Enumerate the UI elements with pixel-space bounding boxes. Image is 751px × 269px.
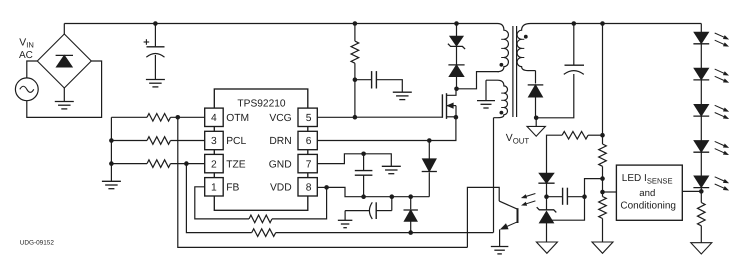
wire R-div2 to return symbol	[602, 219, 604, 243]
svg-text:AC: AC	[19, 50, 33, 61]
ground C-p	[338, 219, 353, 221]
light arrows LED2	[715, 69, 724, 73]
transformer T1 secondary winding	[517, 24, 530, 71]
pin 4 box (OTM)	[205, 108, 224, 126]
block LED I-SENSE and Conditioning	[616, 165, 682, 220]
wire VCG junction to C-VCG	[355, 79, 372, 81]
wire R-OTM to pin 4	[171, 116, 205, 118]
diode D-block	[449, 65, 464, 77]
light arrows LED5	[715, 177, 724, 181]
node T1 secondary phase dot	[524, 35, 528, 39]
wire secondary to D-out	[529, 70, 536, 72]
wire bus to R-PCL	[111, 140, 147, 142]
wire D-z to return symbol	[546, 223, 548, 242]
ground pin 7	[382, 165, 401, 167]
wire aux top to ground	[485, 80, 487, 100]
capacitor C-fb	[562, 188, 564, 205]
diode U2 opto LED	[539, 173, 554, 183]
wire D-out to VOUT node	[535, 97, 537, 118]
ground aux winding	[477, 100, 495, 102]
node divider top junction	[600, 133, 605, 138]
svg-text:TZE: TZE	[226, 159, 246, 170]
wire R-comp left lead to opto LED	[547, 135, 563, 173]
transistor U2 opto NPN	[517, 208, 519, 223]
LED D-led5	[694, 176, 708, 187]
svg-text:UDG-09152: UDG-09152	[20, 240, 55, 247]
node Q1 source junction	[454, 115, 459, 120]
wire D-block to drain node	[456, 77, 458, 89]
wire LED link	[700, 116, 702, 141]
light arrows LED1	[715, 33, 724, 37]
svg-text:4: 4	[211, 113, 217, 124]
capacitor C-VCG	[371, 71, 373, 88]
wire pin 7 GND raised run	[317, 154, 391, 166]
wire VOUT node to C-out	[536, 74, 574, 118]
ground bridge	[63, 88, 65, 101]
ground input cap	[146, 79, 165, 81]
wire top rail primary side	[64, 23, 497, 25]
svg-text:OTM: OTM	[226, 113, 249, 124]
pin 6 box (DRN)	[298, 131, 317, 149]
wire pin 8 VDD to junction	[317, 186, 326, 188]
wire C-VCG to ground	[376, 80, 402, 92]
ground resistor bus	[102, 180, 121, 182]
svg-text:VCG: VCG	[269, 113, 291, 124]
svg-text:5: 5	[306, 113, 312, 124]
svg-text:GND: GND	[269, 159, 292, 170]
node DRN-diode junction	[427, 138, 432, 143]
wire R-comp right lead	[588, 134, 602, 136]
wire top rail secondary side	[531, 23, 702, 25]
svg-text:VDD: VDD	[270, 183, 292, 194]
wire LED link	[700, 152, 702, 176]
node bus-PCL junction	[109, 138, 114, 143]
transformer T1 primary winding	[498, 24, 509, 72]
wire R-PCL to pin 3	[171, 140, 205, 142]
node GND-C7 junction	[361, 152, 366, 157]
svg-text:DRN: DRN	[269, 136, 291, 147]
node T1 primary phase dot	[500, 63, 504, 67]
wire LED link	[700, 44, 702, 69]
node rail-Cout junction	[572, 21, 577, 26]
wire rail down to divider	[602, 24, 604, 145]
svg-text:PCL: PCL	[226, 136, 246, 147]
wire opto junction to C-fb	[547, 196, 563, 198]
LED D-led2	[694, 68, 708, 79]
wire sense node to LED box	[682, 190, 701, 192]
svg-text:3: 3	[211, 136, 217, 147]
resistor R-OTM	[147, 114, 171, 122]
light arrows LED3	[715, 105, 724, 109]
node VDD junction	[324, 185, 329, 190]
pin 7 box (GND)	[298, 154, 317, 172]
ground C-VCG	[393, 91, 412, 93]
node divider sense junction	[600, 190, 605, 195]
wire R-TZE to pin 2	[171, 163, 205, 165]
wire R-div1 to mid junction	[602, 166, 604, 196]
transistor Q1 channel bar	[446, 93, 448, 119]
wire VCG junction to MOSFET gate	[355, 116, 443, 118]
capacitor C-7 (GND to VDD net)	[363, 154, 365, 171]
AC source V1	[15, 78, 38, 101]
pin 8 box (VDD)	[298, 178, 317, 196]
svg-text:FB: FB	[226, 183, 239, 194]
diode D-1 (DRN to VDD net)	[428, 141, 430, 159]
node VOUT junction	[534, 116, 539, 121]
ground opto emitter	[491, 246, 509, 248]
node LED sense junction	[699, 189, 704, 194]
LED D-led3	[694, 105, 708, 116]
transistor Q1 drain lead	[447, 89, 457, 96]
wire opto emitter to ground	[499, 229, 501, 246]
svg-text:8: 8	[306, 183, 312, 194]
node rail-clamp junction	[454, 21, 459, 26]
wire rail to LED string	[700, 24, 702, 33]
transistor Q1 source lead	[447, 116, 457, 118]
wire FB loop	[195, 187, 249, 219]
diode D-2 (aux return to VDD net)	[410, 197, 412, 210]
node rail-cap junction	[153, 21, 158, 26]
wire bus to R-TZE	[111, 163, 147, 165]
wire C-out to rail	[573, 24, 575, 66]
bridge internal diode	[56, 55, 72, 67]
resistor R-sense	[698, 203, 706, 226]
pin 2 box (TZE)	[205, 154, 224, 172]
wire opto LED to junction	[546, 183, 548, 210]
wire C-fb to divider mid	[567, 196, 584, 198]
pin 3 box (PCL)	[205, 131, 224, 149]
pin 1 box (FB)	[205, 178, 224, 196]
svg-text:1: 1	[211, 183, 217, 194]
node net-C7 junction	[361, 194, 366, 199]
resistor R-TZE-aux	[252, 229, 276, 237]
LED D-led4	[694, 141, 708, 152]
node TZE junction	[184, 161, 189, 166]
capacitor C-p polarized	[391, 197, 393, 211]
pin 5 box (VCG)	[298, 108, 317, 126]
node net-Cp junction	[390, 194, 395, 199]
LED D-led1	[694, 32, 708, 43]
wire R-FB to VDD junction	[272, 187, 327, 219]
node D-2 anode junction	[408, 230, 413, 235]
svg-text:Conditioning: Conditioning	[620, 201, 676, 212]
zener D-clamp TVS	[456, 24, 458, 37]
resistor R-TZE	[147, 160, 171, 168]
wire OTM junction down to bottom bus	[178, 117, 468, 247]
node bus-TZE junction	[109, 161, 114, 166]
node OTM junction	[176, 115, 181, 120]
svg-text:2: 2	[211, 159, 217, 170]
wire LED5 to sense node	[700, 188, 702, 203]
wire pin 5 VCG to junction	[317, 116, 355, 118]
wire R-VCG to VCG node	[354, 63, 356, 117]
transistor Q1 body lead with arrow	[447, 105, 457, 107]
capacitor C-in electrolytic	[144, 41, 150, 43]
svg-text:7: 7	[306, 159, 312, 170]
wire resistor bus	[110, 117, 112, 181]
ground LED return (net triangle)	[691, 243, 712, 254]
diode D-out	[529, 85, 543, 97]
node net-D2 junction	[408, 194, 413, 199]
bridge rectifier BR1	[37, 34, 91, 88]
wire sense junction to LED box	[603, 191, 617, 193]
wire VDD junction to local net	[327, 187, 430, 196]
wire TZE junction down to aux return	[186, 164, 251, 233]
node VCG-gate junction	[353, 115, 358, 120]
wire rail to input cap	[154, 24, 156, 47]
node rail-divider junction	[600, 21, 605, 26]
resistor R-FB (FB to VDD)	[249, 215, 272, 223]
node VCG-cap junction	[353, 77, 358, 82]
wire rail to R-VCG	[354, 24, 356, 42]
node opto LED cathode junction	[544, 194, 549, 199]
node C-fb junction	[582, 194, 587, 199]
zener D-z feedback	[537, 207, 557, 212]
node T1 auxiliary phase dot	[500, 111, 504, 115]
wire Q1 source down to DRN line	[317, 117, 456, 140]
wire bridge top to rail	[63, 24, 65, 35]
wire aux bottom to TZE return	[493, 118, 495, 233]
ground opto return (net triangle)	[536, 242, 557, 253]
node rail-Rvcg junction	[353, 21, 358, 26]
wire zener to blocking diode	[456, 46, 458, 64]
node divider mid junction	[600, 176, 605, 181]
node VOUT net symbol	[535, 118, 537, 127]
transistor Q1 gate bar	[441, 94, 443, 118]
svg-text:and: and	[639, 188, 655, 199]
wire drain node to primary winding	[457, 72, 500, 89]
transformer T1 core	[512, 26, 514, 117]
wire R-sense to return symbol	[700, 226, 702, 243]
transformer T1 auxiliary winding	[486, 80, 508, 118]
op-amp U1 TPS92210 body	[214, 89, 307, 210]
resistor R-VCG	[351, 41, 359, 63]
svg-text:6: 6	[306, 136, 312, 147]
wire bridge left to AC source	[27, 61, 38, 78]
resistor R-PCL	[147, 137, 171, 145]
node drain junction	[454, 87, 459, 92]
light arrows LED4	[715, 141, 724, 145]
resistor R-div1	[599, 144, 607, 166]
light arrows opto emission	[526, 194, 535, 197]
ground divider return (net triangle)	[592, 242, 613, 253]
svg-text:TPS92210: TPS92210	[237, 99, 285, 110]
wire AC source bottom loop to bridge right	[27, 61, 102, 117]
resistor R-comp	[562, 131, 588, 139]
capacitor C-out electrolytic	[565, 64, 585, 66]
resistor R-div2	[599, 197, 607, 219]
wire LED link	[700, 80, 702, 105]
wire R-TZE-aux to aux winding return	[276, 232, 494, 234]
wire OTM bus up to opto collector	[467, 187, 499, 247]
